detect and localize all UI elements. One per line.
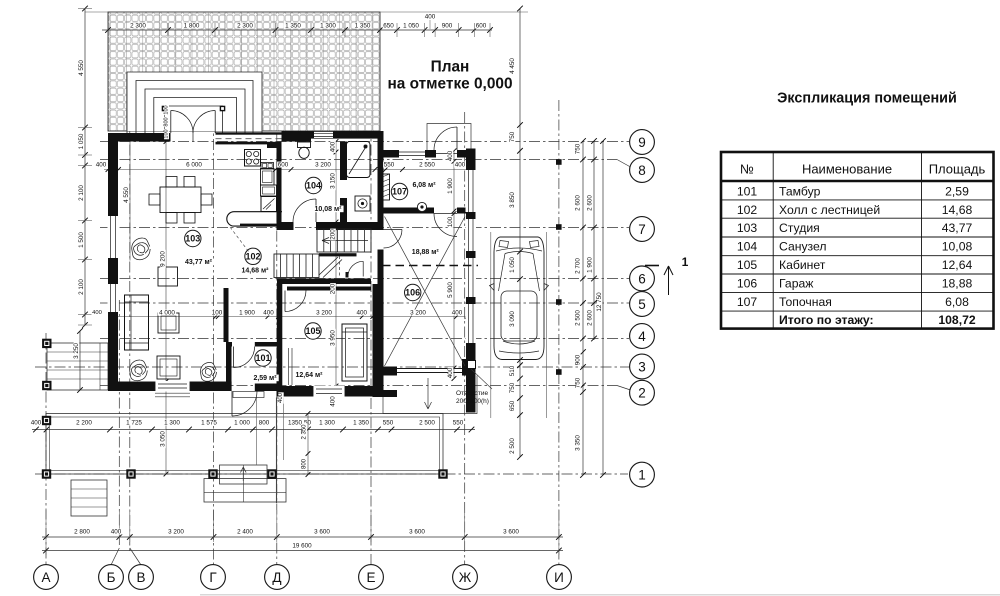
svg-text:2 200: 2 200 [76,420,92,427]
interior dim labels y=169 [95,162,107,168]
svg-text:400: 400 [278,392,284,403]
axis bubble Г [201,565,226,590]
svg-text:3 600: 3 600 [409,529,425,536]
south wall of tambour (right of door) [255,384,277,392]
wall under bathroom 104 [277,222,294,230]
door 102-101 [233,347,235,368]
area label 101 [251,375,278,382]
top dimension line [102,29,492,31]
svg-text:4 000: 4 000 [159,310,175,317]
svg-text:2,59 м²: 2,59 м² [253,375,277,382]
interior vertical dim x=130 [129,142,131,261]
svg-text:2 500: 2 500 [509,438,516,454]
bottom dimension row 3 [42,550,563,552]
svg-text:100: 100 [164,105,170,114]
axis Ж line [464,112,466,564]
axis bubble И [547,565,572,590]
svg-text:800: 800 [259,420,270,427]
svg-text:3 600: 3 600 [503,529,519,536]
garage floor cross [385,217,466,367]
interior vertical dim x=166 [165,142,167,475]
label 800 door [164,117,169,128]
svg-text:750: 750 [575,377,582,388]
curved counter peninsula [227,212,282,226]
entrance canopy [427,124,471,151]
svg-text:1 900: 1 900 [239,310,255,317]
bottom dimension row 1 [32,429,475,431]
plant lower-centre [200,362,216,381]
left mirror [490,284,495,291]
svg-text:Санузел: Санузел [779,240,826,254]
entrance walkway lines [256,398,258,466]
area label 105 [293,372,324,379]
svg-text:107: 107 [392,187,407,197]
svg-text:101: 101 [255,353,270,363]
rear window [503,341,535,344]
room label 103 [185,230,201,246]
svg-text:1: 1 [638,467,646,482]
svg-text:3 600: 3 600 [314,529,330,536]
sink [261,163,274,169]
area label 106 [410,249,441,256]
area label 102 [239,267,270,274]
terrace door posts [162,106,168,112]
svg-text:12,64: 12,64 [942,258,973,272]
svg-text:14,68: 14,68 [942,203,973,217]
axis 2 line [100,385,617,387]
svg-text:6: 6 [638,271,646,286]
svg-text:1 900: 1 900 [447,178,454,194]
svg-text:3 200: 3 200 [410,310,426,317]
svg-text:И: И [554,570,564,585]
right dim column x=603 [602,141,604,475]
axis И node markers [556,159,562,165]
porch dim x=308 [307,414,309,475]
left dimension line [84,9,86,326]
interior dimension line y=169 [104,169,470,171]
svg-text:2 550: 2 550 [419,162,435,169]
svg-text:400: 400 [447,367,454,378]
svg-text:1 050: 1 050 [78,133,85,149]
axis 4 line [100,338,629,340]
svg-text:105: 105 [305,326,320,336]
stove [245,150,261,167]
tambour 101 walls [226,342,232,347]
svg-text:100: 100 [212,310,223,317]
svg-text:№: № [740,162,754,177]
svg-text:18,88: 18,88 [942,277,973,291]
axis bubble 7 [630,217,655,242]
tv stand [157,356,180,379]
water heater [417,202,426,211]
axis И line [558,100,560,564]
north window band (studio) [216,132,282,134]
axis 9 line [100,141,629,143]
entrance door of 101 [231,391,233,416]
svg-text:3 200: 3 200 [315,162,331,169]
axis 2 leader [617,386,631,391]
entrance platform [233,392,264,398]
svg-text:400: 400 [96,162,107,169]
interior dim labels y=316 [158,310,176,316]
dining table [160,187,201,213]
sofa [125,295,149,350]
svg-text:600: 600 [278,162,289,169]
bed/sofa in 105 [342,324,367,381]
axis bubble Д [265,565,290,590]
counter lower [261,185,277,196]
west windows [108,216,119,258]
svg-text:5 900: 5 900 [447,282,454,298]
car [494,237,544,360]
sideboard [158,267,178,286]
svg-text:43,77: 43,77 [942,221,973,235]
svg-text:3 200: 3 200 [316,310,332,317]
west wall [108,133,118,391]
chairs [166,177,177,188]
interior vertical dim x=336 [335,142,337,397]
svg-text:В: В [136,570,145,585]
svg-text:1 575: 1 575 [201,420,217,427]
svg-text:Е: Е [366,570,375,585]
interior dim labels x=460 [448,150,454,162]
svg-text:Холл с лестницей: Холл с лестницей [779,203,880,217]
svg-text:12 750: 12 750 [596,292,603,312]
south wall of cabinet 105 [277,386,376,397]
svg-text:104: 104 [306,181,321,191]
svg-text:1350: 1350 [288,420,303,427]
svg-text:Экспликация помещений: Экспликация помещений [777,91,957,107]
leader 102 dashed [230,227,249,252]
axis Е wall (house/garage wing) [378,131,384,230]
svg-text:400: 400 [425,14,436,21]
svg-text:2 600: 2 600 [575,195,582,211]
svg-text:400: 400 [452,310,463,317]
svg-text:Наименование: Наименование [802,162,892,177]
closet door under stairs [346,272,349,278]
svg-text:19 600: 19 600 [292,543,312,550]
svg-text:102: 102 [245,252,260,262]
staircase lower flight [274,254,319,278]
svg-text:750: 750 [509,382,516,393]
north wall over bathroom [311,131,381,139]
axis bubble 4 [630,324,655,349]
west steps [47,343,108,390]
axis bubble 5 [630,292,655,317]
svg-text:14,68 м²: 14,68 м² [242,268,270,275]
axis bubble В [129,565,154,590]
axis 5 line [100,302,630,304]
area label 107 [410,182,437,189]
axis 3 line [35,366,630,368]
svg-text:550: 550 [383,420,394,427]
svg-text:3 090: 3 090 [509,311,516,327]
svg-text:3 200: 3 200 [168,529,184,536]
stair cut dashed [339,256,341,278]
svg-text:2 500: 2 500 [575,310,582,326]
svg-text:3 950: 3 950 [330,330,337,346]
garage wing north wall [382,150,399,158]
right headlight [530,241,540,248]
room label 105 [305,323,321,339]
svg-text:106: 106 [737,277,758,291]
svg-text:105: 105 [737,258,758,272]
svg-text:на отметке 0,000: на отметке 0,000 [387,76,512,93]
svg-text:800: 800 [302,458,308,469]
interior dim labels x=336 [330,141,336,153]
kitchen counter [261,169,275,186]
section line 1-1 [382,265,478,267]
svg-text:2 100: 2 100 [78,185,85,201]
left headlight [499,241,509,248]
svg-text:400: 400 [263,310,274,317]
door hall to garage wing [384,229,403,231]
svg-text:100: 100 [447,216,454,227]
area label 104 [312,206,343,213]
door to bathroom 104 [315,199,317,222]
boiler [382,174,390,200]
svg-text:2 300: 2 300 [237,23,253,30]
terrace double door [170,111,172,134]
svg-text:200: 200 [330,283,337,294]
svg-text:9: 9 [638,135,646,150]
axis Е line [370,125,372,564]
svg-text:1 350: 1 350 [285,23,301,30]
hatch vertical seam lines [109,12,111,131]
svg-text:3 050: 3 050 [160,431,167,447]
fridge [261,197,277,212]
svg-text:6,08 м²: 6,08 м² [412,182,436,189]
axis bubble 8 [630,158,655,183]
kitchen/bath wall [277,142,282,223]
svg-text:Итого по этажу:: Итого по этажу: [779,313,874,327]
axis bubble Ж [453,565,478,590]
slope arrow [425,378,432,409]
svg-text:600: 600 [476,23,487,30]
axis bubble 2 [630,380,655,405]
svg-text:4 550: 4 550 [78,60,85,76]
axis bubble Е [359,565,384,590]
svg-text:3 350: 3 350 [575,435,582,451]
svg-text:1 500: 1 500 [78,232,85,248]
hood line [496,248,542,251]
svg-text:900: 900 [442,23,453,30]
terrace steps [127,72,262,131]
svg-text:1 300: 1 300 [164,420,180,427]
svg-text:750: 750 [509,131,516,142]
svg-text:103: 103 [737,221,758,235]
axis bubble 3 [630,354,655,379]
svg-text:1: 1 [682,255,689,269]
svg-text:10,08: 10,08 [942,240,973,254]
svg-text:200х300(h): 200х300(h) [456,398,489,405]
svg-text:108,72: 108,72 [938,313,975,327]
washing machine [355,196,370,211]
plant upper-left [132,238,150,260]
svg-text:А: А [41,570,50,585]
svg-text:Площадь: Площадь [929,162,986,177]
svg-text:106: 106 [405,288,420,298]
svg-text:103: 103 [185,234,200,244]
axis bubble 9 [630,130,655,155]
right dim column x=520 [519,9,521,458]
svg-text:900: 900 [575,354,582,365]
svg-text:200: 200 [330,229,337,240]
axis 8 line [100,159,617,161]
svg-text:2 350: 2 350 [302,424,308,440]
porch posts [42,469,51,478]
svg-text:100: 100 [164,129,170,138]
svg-text:650: 650 [509,400,516,411]
svg-text:2 100: 2 100 [78,279,85,295]
wall 107/106 [382,208,434,214]
interior vertical dim x=460 [453,151,455,379]
svg-text:18,88 м²: 18,88 м² [412,249,440,256]
left 3250 dim [79,331,81,390]
svg-text:Топочная: Топочная [779,295,832,309]
axis 7 line [100,227,629,229]
axis Д line [276,133,278,564]
svg-text:1 350: 1 350 [353,420,369,427]
svg-text:43,77 м²: 43,77 м² [185,259,213,266]
axis В leader [130,548,141,565]
stair break line [319,257,338,275]
svg-text:750: 750 [575,143,582,154]
svg-text:1 000: 1 000 [234,420,250,427]
svg-text:Тамбур: Тамбур [779,185,821,199]
svg-text:1 300: 1 300 [319,420,335,427]
svg-text:400: 400 [447,150,454,161]
coffee table [158,313,179,333]
svg-text:1 050: 1 050 [509,257,516,273]
label 4550 studio [124,186,130,204]
svg-text:400: 400 [92,310,102,316]
axis В line [129,125,131,552]
room label 104 [305,177,321,193]
axis 8 leader [617,160,631,168]
axis bubble А [34,565,59,590]
parking strip lines [490,232,492,418]
shower [347,142,371,178]
rear deck [499,351,539,353]
right dim column x=594 [593,141,595,340]
svg-text:1 900: 1 900 [587,257,594,273]
axis bubble 1 [630,462,655,487]
svg-text:102: 102 [737,203,758,217]
svg-text:2 600: 2 600 [587,310,594,326]
door 107-106 [434,213,457,215]
label 9200 studio [160,250,166,268]
svg-text:400: 400 [330,396,337,407]
bath inner wall x=340 [340,142,347,181]
svg-text:3: 3 [638,359,646,374]
right mirror [544,284,549,291]
svg-text:Д: Д [272,570,281,585]
svg-text:5: 5 [638,297,646,312]
bottom dimension row 2 [42,536,563,538]
wardrobe edge [288,348,290,385]
svg-text:107: 107 [737,295,758,309]
south-west lower steps [71,480,107,516]
svg-text:9 200: 9 200 [160,251,167,267]
studio/hall partition [224,288,229,342]
axis Б line [118,300,120,548]
plant lower-left [130,360,148,381]
svg-text:3 850: 3 850 [509,192,516,208]
axis Г line [213,100,215,564]
axis Д wall (101/105) [277,283,283,397]
svg-text:2 800: 2 800 [74,529,90,536]
svg-text:12,64 м²: 12,64 м² [296,372,324,379]
svg-text:4 450: 4 450 [509,58,516,74]
svg-text:6,08: 6,08 [945,295,969,309]
svg-text:2,59: 2,59 [945,185,969,199]
garage driveway apron [383,376,477,414]
svg-text:Г: Г [209,570,217,585]
axis А line [45,333,47,564]
svg-text:Б: Б [107,570,116,585]
axis bubble 6 [630,266,655,291]
svg-text:10,08 м²: 10,08 м² [315,206,343,213]
svg-text:Отверстие: Отверстие [456,390,489,397]
room label 101 [255,350,271,366]
svg-text:550: 550 [453,420,464,427]
north wall kitchen segment [282,131,312,142]
svg-text:650: 650 [383,23,394,30]
svg-text:Студия: Студия [779,221,820,235]
door to cabinet 105 [284,291,286,312]
svg-text:2 600: 2 600 [587,195,594,211]
room label 102 [245,248,261,264]
label 3050 porch [160,430,166,448]
svg-text:2 300: 2 300 [130,23,146,30]
staircase upper flight [317,229,371,252]
svg-text:План: План [431,59,470,76]
svg-text:1 300: 1 300 [320,23,336,30]
svg-text:400: 400 [357,310,368,317]
svg-text:4: 4 [638,329,646,344]
svg-text:800: 800 [164,117,170,126]
svg-text:400: 400 [330,141,337,152]
area label 103 [183,259,214,266]
room label 106 [405,284,421,300]
steps up arrow [241,467,247,481]
south wall of studio [108,382,232,392]
svg-text:6 000: 6 000 [186,162,202,169]
svg-text:2 700: 2 700 [575,258,582,274]
stair up arrow [322,238,368,244]
page bottom scan artifact [200,594,1000,596]
svg-text:101: 101 [737,185,758,199]
terrace paving hatch [108,12,380,131]
svg-text:2 500: 2 500 [419,420,435,427]
svg-text:2: 2 [638,386,646,401]
garage front wall + door [376,367,397,376]
room label 107 [391,183,407,199]
axis 1 line [35,473,628,475]
svg-text:400: 400 [31,420,42,427]
porch outline [46,414,443,475]
svg-text:1 800: 1 800 [184,23,200,30]
svg-text:7: 7 [638,222,646,237]
label 400 under 101 [278,392,283,403]
svg-text:Кабинет: Кабинет [779,258,826,272]
main entrance door [456,127,458,150]
south entrance steps [220,465,268,484]
interior dimension line y=316 [111,316,467,318]
wall 102/105 [277,279,371,285]
svg-text:1 350: 1 350 [355,23,371,30]
